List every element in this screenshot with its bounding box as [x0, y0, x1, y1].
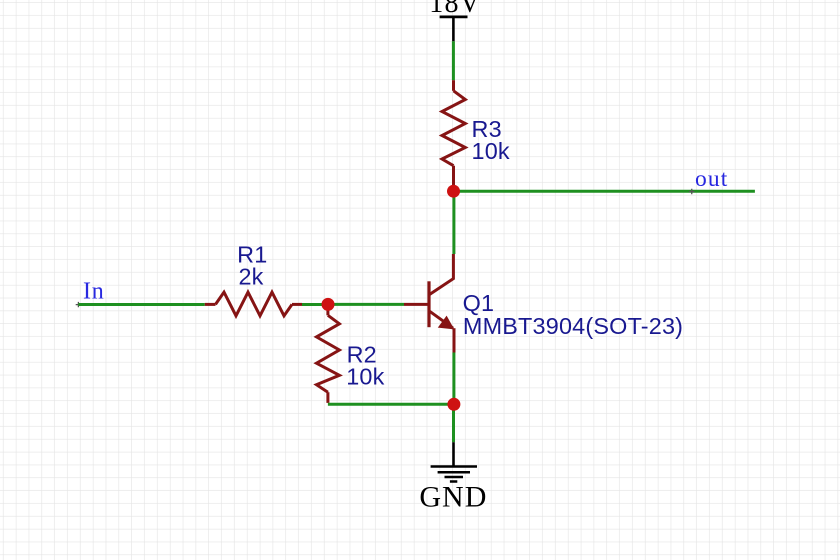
junction node at emitter/R2/GND [447, 398, 460, 411]
junction node at base/R1/R2 [322, 298, 335, 311]
base bar [427, 281, 430, 327]
net label anchor cross (out) [689, 189, 695, 195]
svg-text:GND: GND [419, 481, 487, 514]
resistor R3 [442, 80, 465, 185]
wire 18V to R3 [452, 41, 455, 80]
transistor Q1 [404, 254, 454, 353]
wire collector [452, 191, 455, 254]
svg-text:10k: 10k [346, 364, 384, 390]
wire out net [454, 190, 755, 193]
wire R2 bottom to junction [328, 403, 454, 406]
emitter pin vertical [453, 328, 456, 352]
resistor R2 [317, 304, 340, 403]
svg-text:10k: 10k [472, 138, 510, 164]
resistor R1 [205, 292, 302, 316]
junction node at collector/R3/out [447, 185, 460, 198]
net label anchor cross (In) [76, 302, 81, 307]
emitter diagonal pin [430, 311, 453, 328]
collector diagonal pin [430, 254, 454, 294]
wire In to R1 [78, 303, 204, 306]
emitter arrow [438, 316, 455, 330]
power stub wire (black) [452, 17, 455, 41]
ground symbol GND [431, 467, 477, 482]
wire R1 to base junction [302, 303, 328, 306]
base pin [404, 303, 429, 306]
wire junction to GND [452, 404, 455, 442]
svg-text:out: out [695, 166, 728, 192]
power bar symbol 18V [440, 15, 468, 18]
wire emitter to bottom junction [452, 353, 455, 405]
ground stub wire (black) [452, 442, 455, 466]
svg-text:MMBT3904(SOT-23): MMBT3904(SOT-23) [463, 313, 683, 339]
svg-text:2k: 2k [238, 264, 263, 290]
svg-text:In: In [83, 278, 105, 304]
wire base junction to Q1 base [328, 303, 404, 306]
